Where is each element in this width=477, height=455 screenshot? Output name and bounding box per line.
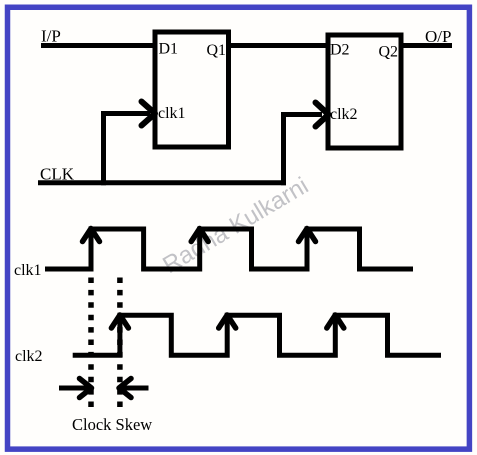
svg-text:Q2: Q2	[379, 44, 399, 61]
node CLK	[40, 165, 75, 184]
wire Q2 to O/P	[401, 43, 452, 48]
svg-text:D2: D2	[330, 42, 350, 59]
rising-edge arrow clk2 edge 1	[111, 315, 128, 328]
flip-flop U1	[155, 32, 229, 147]
rising-edge arrow clk2 edge 2	[219, 315, 236, 328]
waveform label clk1	[14, 262, 42, 279]
rising-edge arrow clk1 edge 1	[83, 229, 100, 242]
dotted line at clk2 rising edge	[117, 278, 123, 410]
clock arrowhead at clk2	[316, 103, 329, 127]
watermark	[158, 172, 313, 279]
rising-edge arrow clk1 edge 3	[299, 229, 316, 242]
pin label Q1	[207, 42, 227, 59]
svg-text:D1: D1	[159, 41, 179, 58]
wire I/P to D1	[41, 43, 156, 48]
pin label D1	[159, 41, 179, 58]
node O/P	[425, 27, 451, 46]
pin label D2	[330, 42, 350, 59]
wire CLK to clk1	[104, 114, 151, 186]
waveform label clk2	[15, 348, 43, 365]
pin label clk2	[330, 106, 358, 123]
rising-edge arrow clk1 edge 2	[191, 229, 208, 242]
waveform clk1	[45, 229, 413, 269]
pin label Q2	[379, 44, 399, 61]
flip-flop U2	[328, 35, 401, 148]
svg-text:Q1: Q1	[207, 42, 227, 59]
node I/P	[41, 27, 61, 46]
clock arrowhead at clk1	[142, 102, 156, 126]
svg-text:Clock Skew: Clock Skew	[72, 415, 152, 434]
dotted line at clk1 rising edge	[88, 278, 94, 410]
wire CLK to clk2	[284, 115, 323, 186]
wire Q1 to D2	[229, 43, 329, 48]
svg-text:clk2: clk2	[330, 106, 358, 123]
waveform clk2	[73, 315, 441, 355]
skew arrow left	[59, 379, 92, 398]
svg-text:clk2: clk2	[15, 348, 43, 365]
wire CLK	[38, 180, 286, 185]
svg-text:clk1: clk1	[158, 105, 186, 122]
rising-edge arrow clk2 edge 3	[327, 315, 344, 328]
label Clock Skew	[72, 415, 152, 434]
svg-text:I/P: I/P	[41, 27, 61, 46]
pin label clk1	[158, 105, 186, 122]
svg-text:clk1: clk1	[14, 262, 42, 279]
skew arrow right	[119, 379, 149, 398]
svg-text:O/P: O/P	[425, 27, 451, 46]
